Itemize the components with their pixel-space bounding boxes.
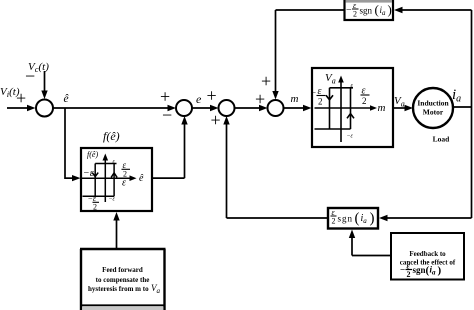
wire bottom feedback into eps/2 sgn box — [379, 215, 472, 221]
wire top feedback into -eps/2 sgn box — [394, 7, 472, 13]
label -epsilon/2 sgn(i_a) in top box — [346, 1, 392, 19]
svg-text:−: − — [25, 66, 35, 86]
svg-text:+: + — [207, 86, 217, 106]
grey cropped bottom band of feed forward box — [82, 307, 163, 310]
svg-text:): ) — [388, 2, 392, 17]
svg-text:+: + — [255, 89, 265, 109]
wire bottom feedback up into S3 — [223, 116, 229, 218]
svg-text:−: − — [311, 88, 316, 98]
wire branch down from e-hat line to f(e) block input — [65, 108, 81, 181]
wire S2 to S3 — [192, 105, 219, 111]
svg-text:m: m — [291, 93, 299, 105]
block Feed forward note box — [80, 249, 166, 310]
wire S3 to S4 — [235, 105, 268, 111]
wire S1 to S2 — [53, 105, 176, 111]
Va/m graph: label -epsilon/2 fraction left — [311, 86, 326, 107]
svg-text:m: m — [378, 102, 386, 114]
f(e) graph: horizontal axis with e-hat arrow — [82, 175, 137, 181]
svg-text:ê: ê — [64, 93, 70, 105]
f(e) graph: up chevron arrow on right branch — [111, 173, 117, 178]
Va/m graph: label epsilon/2 fraction right — [361, 86, 370, 107]
Va/m graph: hysteresis loop — [315, 88, 354, 129]
svg-text:−: − — [162, 105, 172, 125]
svg-text:−: − — [400, 265, 405, 275]
summing junction S4 — [268, 100, 284, 116]
grey cropped top edge of top block — [346, 0, 393, 3]
wire from feedback note box up into bottom sgn box — [349, 230, 391, 256]
svg-text:2: 2 — [362, 96, 367, 106]
svg-text:2: 2 — [318, 97, 323, 107]
wire S4 to hysteresis block — [284, 105, 312, 111]
Va/m graph: down chevron arrow on left branch — [326, 95, 333, 100]
svg-text:Feedback to: Feedback to — [409, 250, 446, 258]
wire bottom box output left then up to S3 — [227, 217, 329, 219]
Va/m graph: horizontal axis with m arrow — [315, 105, 378, 111]
Va/m graph: up chevron arrow on right branch — [347, 114, 354, 119]
svg-text:−ε: −ε — [83, 168, 94, 179]
svg-text:−ε: −ε — [347, 134, 354, 140]
wire Va from block to induction motor — [393, 105, 413, 111]
svg-text:−ε: −ε — [88, 194, 97, 203]
svg-text:f(ê): f(ê) — [103, 129, 120, 143]
summing junction S2 — [176, 100, 192, 116]
f(e) graph: down chevron arrow on left branch — [92, 173, 98, 177]
f(e) graph: label epsilon/2 fraction upper right — [122, 160, 131, 179]
svg-text:Feed forward: Feed forward — [102, 266, 143, 274]
svg-text:2: 2 — [407, 270, 411, 279]
svg-text:(: ( — [375, 2, 379, 17]
wire from feed forward box up into f(e) block — [113, 212, 119, 249]
svg-text:2: 2 — [353, 10, 357, 19]
svg-text:Motor: Motor — [423, 108, 444, 117]
svg-text:+: + — [160, 87, 170, 107]
wire V_c(t) input arrow into S1 from top — [41, 71, 47, 99]
svg-text:2: 2 — [93, 203, 97, 212]
wire right vertical feedback line — [471, 10, 473, 218]
block Va/m hysteresis (inverter) — [312, 68, 393, 147]
wire top feedback down into S4 — [272, 10, 278, 100]
svg-text:e: e — [196, 92, 202, 106]
wire motor output i_a to right vertical feedback line — [453, 106, 472, 108]
label Feedback to cancel the effect of -eps/2 sgn(ia) — [400, 250, 456, 279]
block Feedback-to-cancel note box — [391, 233, 464, 280]
svg-text:ε: ε — [122, 178, 126, 189]
svg-text:(: ( — [355, 211, 360, 227]
svg-text:to compensate the: to compensate the — [96, 276, 150, 284]
Va/m graph: vertical axis — [338, 76, 344, 143]
svg-text:hysteresis from m to: hysteresis from m to — [88, 285, 149, 293]
block -epsilon/2 sgn(i_a) top — [345, 0, 394, 20]
summing junction S3 — [219, 100, 235, 116]
svg-text:Load: Load — [433, 135, 451, 144]
wire V_i(t) input arrow into summing junction S1 — [7, 105, 36, 111]
label Feed forward to compensate the hysteresis — [88, 266, 161, 295]
f(e) graph: hysteresis loop — [83, 164, 117, 197]
svg-text:−ε: −ε — [109, 197, 116, 203]
svg-text:Induction: Induction — [417, 99, 449, 108]
svg-text:−: − — [346, 5, 352, 16]
svg-text:sgn: sgn — [360, 6, 373, 16]
svg-text:+: + — [261, 71, 271, 91]
f(e) graph: vertical axis — [103, 154, 109, 203]
svg-text:ê: ê — [139, 173, 144, 184]
wire top box output to S4 — [276, 9, 345, 11]
block epsilon/2 sgn(i_a) bottom — [328, 208, 378, 229]
svg-text:): ) — [370, 211, 375, 227]
svg-text:2: 2 — [332, 217, 336, 226]
svg-text:): ) — [438, 265, 442, 277]
summing junction S1 — [36, 100, 53, 117]
label epsilon/2 sgn(i_a) in bottom box — [331, 208, 375, 227]
svg-text:f(ê): f(ê) — [87, 150, 98, 159]
block f(e-hat) hysteresis compensator — [81, 148, 152, 211]
f(e) graph: label -epsilon/2 fraction bottom left — [88, 194, 100, 212]
wire f(e) block output up into S2 bottom (minus) — [152, 116, 188, 178]
svg-text:ε: ε — [351, 82, 354, 89]
svg-text:sgn: sgn — [413, 265, 426, 275]
svg-text:ε: ε — [123, 160, 127, 170]
induction motor circle — [413, 88, 453, 128]
svg-text:sgn: sgn — [338, 214, 354, 224]
svg-text:+: + — [16, 88, 26, 108]
